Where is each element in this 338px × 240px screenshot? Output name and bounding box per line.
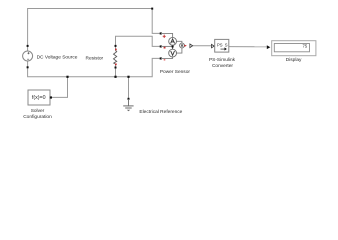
svg-text:Power Sensor: Power Sensor — [160, 69, 191, 75]
svg-text:75: 75 — [303, 43, 308, 48]
svg-text:Converter: Converter — [212, 63, 233, 69]
svg-text:DC Voltage Source: DC Voltage Source — [37, 54, 78, 60]
svg-text:PS: PS — [217, 43, 223, 48]
svg-text:Electrical Reference: Electrical Reference — [139, 109, 182, 115]
svg-text:f(x)=0: f(x)=0 — [32, 95, 46, 101]
svg-text:Configuration: Configuration — [23, 114, 52, 120]
svg-text:Resistor: Resistor — [86, 55, 104, 61]
svg-text:Solver: Solver — [31, 108, 45, 114]
svg-text:Display: Display — [286, 57, 302, 63]
svg-text:S: S — [225, 43, 228, 48]
svg-text:PS-Simulink: PS-Simulink — [209, 57, 236, 63]
